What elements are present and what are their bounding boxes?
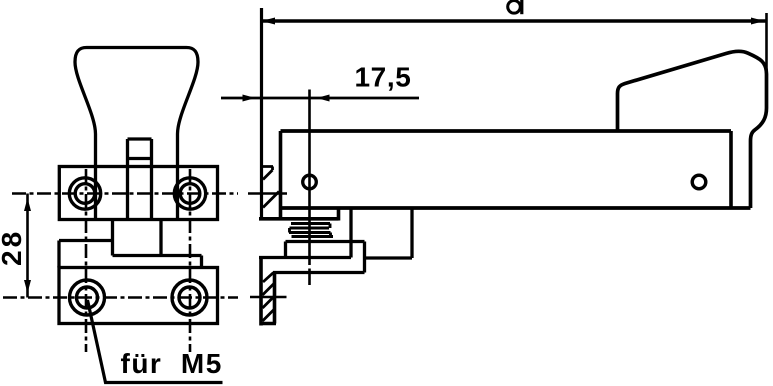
svg-text:für M5: für M5 xyxy=(121,348,223,379)
upper plate bottom / washer plate top xyxy=(259,208,339,221)
housing inner wall xyxy=(349,208,352,258)
lower-left screw hole M5 xyxy=(70,280,105,315)
dimension a left arrowhead xyxy=(262,18,276,25)
dimension 17,5 left arrowhead xyxy=(243,95,256,102)
dimension line 28 xyxy=(26,194,29,298)
dimension line a xyxy=(262,19,767,22)
dimension letter a glyph xyxy=(508,1,521,14)
extension line right for dimension a xyxy=(765,13,768,80)
lever arm top edge (side view) xyxy=(281,129,732,133)
housing shelf lines xyxy=(259,256,412,260)
knob stem rectangle with divider xyxy=(128,139,152,220)
dimension a right arrowhead xyxy=(751,18,765,25)
body middle block with right step xyxy=(113,220,202,268)
lower bracket chamfer xyxy=(263,273,274,283)
upper plate section hatch xyxy=(263,192,279,208)
trigger knob outline (front view) xyxy=(75,48,198,167)
right hole column vertical centerline xyxy=(189,169,192,352)
body step left side xyxy=(59,241,113,268)
dimension line 17,5 xyxy=(221,97,419,100)
upper mounting plate (front view) xyxy=(59,167,217,220)
upper hole row horizontal centerline xyxy=(12,192,238,195)
lower bracket outline (side view) xyxy=(260,256,277,326)
spring coil stack xyxy=(289,224,333,237)
upper-left screw hole xyxy=(69,178,100,209)
upper plate section top step (side view) xyxy=(262,167,274,180)
svg-text:17,5: 17,5 xyxy=(355,62,412,93)
dimension 17,5 right arrowhead xyxy=(317,95,330,102)
dimension 28 upper arrowhead xyxy=(24,198,31,211)
upper hole centerline (side view) xyxy=(248,192,287,195)
lever arm left edge xyxy=(279,131,283,219)
lever arm bottom edge xyxy=(281,206,751,210)
housing right wall xyxy=(410,208,413,258)
pivot circle (side view) xyxy=(303,175,317,189)
lower hole centerline (side view) xyxy=(250,296,287,299)
pivot vertical centerline xyxy=(308,90,311,286)
spring coil end ticks xyxy=(290,224,331,237)
small hole in lever arm xyxy=(692,175,706,189)
spring seat block xyxy=(286,242,365,273)
housing lower horizontal edge xyxy=(273,271,365,274)
leader line to label für M5 xyxy=(88,300,223,383)
lower bracket hatches xyxy=(263,283,275,321)
left hole column vertical centerline xyxy=(85,169,88,352)
trigger grip blade (side view) xyxy=(618,51,767,208)
dimension 28 lower arrowhead xyxy=(24,280,31,293)
extension line / left edge of side view xyxy=(260,8,263,219)
lower hole row horizontal centerline xyxy=(3,296,238,299)
lower-right screw hole M5 xyxy=(172,280,207,315)
svg-text:28: 28 xyxy=(0,229,27,266)
upper-right screw hole xyxy=(174,178,205,209)
knob side edges continued through upper plate xyxy=(96,167,178,220)
lever arm right end edge xyxy=(729,131,733,208)
lower mounting plate (front view) xyxy=(59,268,218,324)
